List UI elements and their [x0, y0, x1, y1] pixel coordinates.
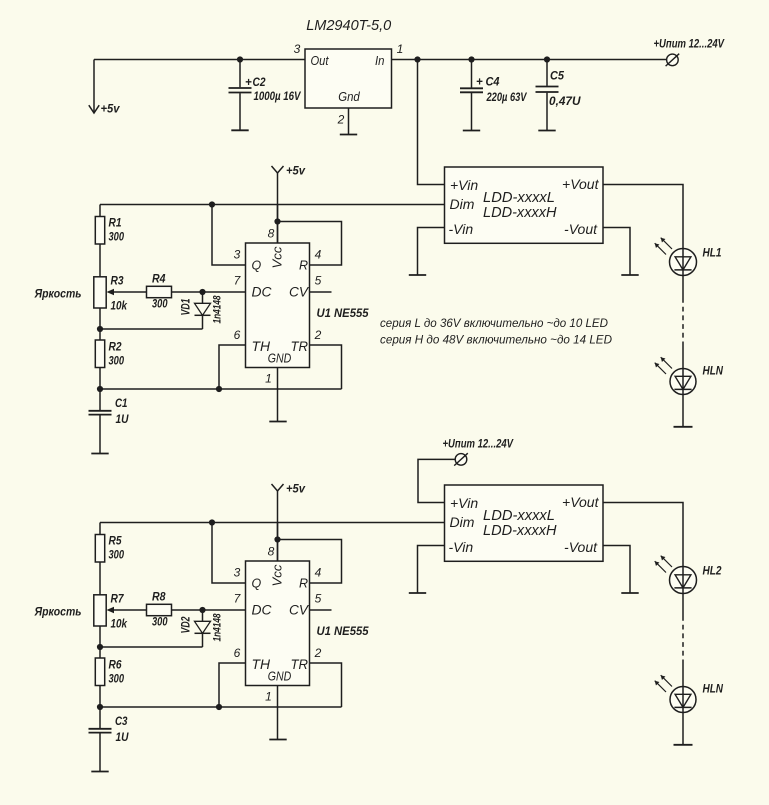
regulator Gnd pin 2 stub: [348, 108, 350, 135]
svg-text:U1 NE555: U1 NE555: [317, 306, 369, 320]
svg-text:+Uпит 12...24V: +Uпит 12...24V: [443, 439, 515, 451]
svg-text:300: 300: [109, 674, 125, 686]
node Vcc/R junction section 1: [274, 218, 280, 224]
svg-text:R: R: [299, 577, 308, 591]
svg-text:R3: R3: [111, 276, 125, 288]
wire dashed chain to HLN (HL1 group): [682, 345, 684, 369]
svg-text:TR: TR: [291, 339, 309, 354]
ground bar pin 1 section 1: [269, 421, 286, 423]
svg-text:Gnd: Gnd: [338, 89, 360, 104]
ground bar C2: [231, 129, 248, 131]
wire -Vout lead section 1: [603, 228, 630, 276]
svg-text:R7: R7: [111, 594, 125, 606]
wire pin 3 Q branch section 2: [212, 523, 246, 584]
wire R1 to R3: [99, 244, 101, 277]
capacitor C1 1U: [99, 389, 101, 410]
wire +5v rail to Out pin: [94, 59, 305, 61]
svg-text:2: 2: [337, 113, 345, 127]
svg-text:8: 8: [268, 545, 275, 559]
svg-text:In: In: [375, 53, 385, 68]
svg-text:C2: C2: [253, 77, 267, 89]
svg-text:серия L до 36V включительно ~д: серия L до 36V включительно ~до 10 LED: [380, 316, 608, 330]
diode VD1 1n4148: [202, 292, 204, 303]
svg-text:Яркость: Яркость: [34, 605, 82, 619]
timer U1 NE555 box section 2: [246, 561, 310, 686]
svg-text:HLN: HLN: [703, 684, 724, 696]
terminal +Uпит bottom: [455, 454, 467, 466]
svg-text:R8: R8: [152, 592, 166, 604]
svg-text:VD1: VD1: [181, 299, 193, 316]
ground bar under C3: [91, 771, 108, 773]
regulator U2 LM2940 box: [305, 49, 392, 108]
wire pin 6 TH section 1: [219, 345, 246, 389]
svg-text:Dim: Dim: [450, 514, 475, 530]
ground bar C4: [463, 130, 480, 132]
LED HLN (HL2 group): [670, 687, 696, 713]
wire -Vin to ground section 1: [418, 228, 445, 276]
terminal +Uпит top: [667, 54, 679, 66]
ground bar -Vin section 2: [409, 592, 426, 594]
wire pin 8 to pin 4 R section 1: [278, 222, 342, 266]
svg-text:HLN: HLN: [703, 366, 724, 378]
svg-text:Q: Q: [252, 577, 262, 591]
svg-text:4: 4: [315, 566, 322, 580]
svg-text:1000µ 16V: 1000µ 16V: [254, 91, 302, 103]
resistor R8: [147, 604, 172, 615]
resistor R2: [95, 340, 104, 368]
svg-text:C1: C1: [115, 398, 128, 410]
LED HL1: [670, 249, 697, 276]
wire In pin to +U terminal: [392, 59, 667, 61]
wiper arrow of R7: [109, 609, 147, 611]
wire pin 3 Q branch section 1: [212, 205, 246, 266]
svg-text:220µ 63V: 220µ 63V: [486, 92, 528, 104]
svg-text:3: 3: [294, 42, 301, 56]
node TH junction on bottom rail section 1: [216, 386, 222, 392]
svg-text:1n4148: 1n4148: [212, 295, 224, 324]
svg-text:DC: DC: [252, 285, 272, 300]
svg-text:U1 NE555: U1 NE555: [317, 624, 369, 638]
wire R5 top lead: [99, 523, 101, 535]
capacitor C3 1U: [99, 707, 101, 728]
wiper arrow of R3: [109, 291, 147, 293]
wire +Vout to LED HL1: [603, 185, 683, 249]
LED HL2: [670, 567, 697, 594]
svg-text:-Vin: -Vin: [449, 221, 474, 237]
svg-text:CV: CV: [289, 285, 310, 300]
wire Dim rail section 1: [100, 204, 445, 206]
node ground-rail left junction section 2: [97, 704, 103, 710]
svg-text:серия H до 48V включительно ~д: серия H до 48V включительно ~до 14 LED: [380, 333, 612, 347]
wire In junction to +Vin LDD1: [418, 60, 445, 185]
resistor R5: [95, 535, 104, 563]
wire diode VD2 to pot bottom: [100, 646, 203, 648]
wire pin 1 GND stub section 1: [277, 368, 279, 422]
svg-text:Out: Out: [311, 53, 330, 68]
svg-text:6: 6: [234, 646, 241, 660]
svg-text:3: 3: [234, 248, 241, 262]
svg-text:10k: 10k: [111, 619, 128, 631]
wire -Vin to ground section 2: [418, 546, 445, 594]
node ground-rail left junction section 1: [97, 386, 103, 392]
wire dashed LED chain continuation below HL2: [682, 616, 684, 663]
svg-text:-Vout: -Vout: [564, 221, 598, 237]
wire -Vout lead section 2: [603, 546, 630, 594]
terminal bar LED chain bottom (HL2 group): [674, 744, 693, 746]
terminal bar LED chain bottom (HL1 group): [674, 426, 693, 428]
resistor R6: [95, 658, 104, 686]
svg-text:1: 1: [397, 42, 404, 56]
svg-text:300: 300: [152, 299, 168, 311]
wire pot to R2: [99, 308, 101, 340]
svg-text:8: 8: [268, 227, 275, 241]
LED HLN (HL1 group): [670, 369, 696, 395]
wire R6 bottom lead: [99, 686, 101, 708]
node junction Q-branch section 1: [209, 201, 215, 207]
wire pin 1 GND stub section 2: [277, 686, 279, 740]
svg-text:4: 4: [315, 248, 322, 262]
svg-text:300: 300: [109, 550, 125, 562]
wire pin 5 CV stub section 2: [310, 609, 332, 611]
svg-text:300: 300: [152, 617, 168, 629]
svg-text:1U: 1U: [116, 732, 130, 744]
svg-text:R: R: [299, 259, 308, 273]
LED driver module LDD box section 1: [445, 167, 604, 243]
svg-text:LDD-xxxxH: LDD-xxxxH: [483, 204, 557, 221]
capacitor C2 1000µ 16V: [239, 60, 241, 88]
power +5v arrow section 1: [272, 166, 284, 173]
svg-text:TR: TR: [291, 657, 309, 672]
node C2 junction: [237, 56, 243, 62]
node junction Q-branch section 2: [209, 519, 215, 525]
wire dashed LED chain continuation below HL1: [682, 298, 684, 345]
power +5v arrow top left: [93, 60, 95, 114]
node In-pin junction: [414, 56, 420, 62]
svg-text:300: 300: [109, 356, 125, 368]
wire dashed chain to HLN (HL2 group): [682, 663, 684, 687]
ground bar pin 1 section 2: [269, 739, 286, 741]
svg-text:DC: DC: [252, 603, 272, 618]
wire Vcc pin 8 drop section 2: [277, 523, 279, 562]
svg-text:+5v: +5v: [101, 104, 121, 116]
power +5v arrow section 2: [272, 484, 284, 491]
svg-text:6: 6: [234, 328, 241, 342]
diode VD2 1n4148: [202, 610, 204, 621]
potentiometer R3 10k: [94, 277, 106, 308]
wire Vcc pin 8 drop section 1: [277, 205, 279, 244]
svg-text:1: 1: [265, 372, 272, 386]
svg-text:300: 300: [109, 232, 125, 244]
wire pin 2 TR section 1: [310, 345, 342, 389]
wire R2 bottom lead: [99, 368, 101, 390]
svg-text:Q: Q: [252, 259, 262, 273]
svg-text:+: +: [476, 77, 483, 89]
svg-text:2: 2: [314, 328, 322, 342]
svg-text:R2: R2: [109, 342, 123, 354]
timer U1 NE555 box section 1: [246, 243, 310, 368]
svg-text:R5: R5: [109, 536, 123, 548]
wire HLN bottom lead (HL2 group): [682, 713, 684, 745]
ground bar -Vin section 1: [409, 274, 426, 276]
svg-text:1n4148: 1n4148: [212, 613, 224, 642]
svg-text:-Vout: -Vout: [564, 539, 598, 555]
svg-text:GND: GND: [268, 669, 292, 684]
wire pin 2 TR section 2: [310, 663, 342, 707]
svg-text:+Vin: +Vin: [450, 495, 478, 511]
ground bar -Vout section 1: [621, 274, 638, 276]
wire Dim rail section 2: [100, 522, 445, 524]
svg-text:+Vin: +Vin: [450, 177, 478, 193]
wire HLN bottom lead (HL1 group): [682, 395, 684, 427]
wire pin 6 TH section 2: [219, 663, 246, 707]
svg-text:+Vout: +Vout: [562, 176, 600, 192]
svg-text:Dim: Dim: [450, 196, 475, 212]
svg-text:-Vin: -Vin: [449, 539, 474, 555]
svg-text:5: 5: [315, 274, 322, 288]
svg-text:HL2: HL2: [703, 566, 723, 578]
ground bar under C1: [91, 453, 108, 455]
svg-text:1U: 1U: [116, 414, 130, 426]
wire pin 5 CV stub section 1: [310, 291, 332, 293]
wire R8 to pin 7 DC: [172, 609, 246, 611]
wire R1 top lead: [99, 205, 101, 217]
ground bar -Vout section 2: [621, 592, 638, 594]
wire bottom rail section 2: [100, 706, 342, 708]
node pot bottom junction section 1: [97, 326, 103, 332]
wire HL2 to dashed chain: [682, 594, 684, 617]
svg-text:R4: R4: [152, 274, 166, 286]
wire R4 to pin 7 DC: [172, 291, 246, 293]
svg-text:+5v: +5v: [286, 484, 306, 496]
svg-text:C3: C3: [115, 716, 128, 728]
wire pin 8 to pin 4 R section 2: [278, 540, 342, 584]
svg-text:VD2: VD2: [181, 616, 193, 633]
wire diode VD1 to pot bottom: [100, 328, 203, 330]
svg-text:Vcc: Vcc: [270, 246, 285, 269]
node Vcc/R junction section 2: [274, 536, 280, 542]
potentiometer R7 10k: [94, 595, 106, 626]
wire +Vout to LED HL2: [603, 503, 683, 567]
svg-text:Яркость: Яркость: [34, 287, 82, 301]
svg-text:CV: CV: [289, 603, 310, 618]
capacitor C5 0,47U: [546, 60, 548, 86]
node C4 junction: [468, 56, 474, 62]
wire terminal to +Vin LDD2: [418, 459, 455, 502]
wire HL1 to dashed chain: [682, 276, 684, 299]
svg-text:2: 2: [314, 646, 322, 660]
node junction diode VD1 top: [199, 289, 205, 295]
node junction diode VD2 top: [199, 607, 205, 613]
svg-text:LDD-xxxxH: LDD-xxxxH: [483, 522, 557, 539]
svg-text:+Uпит 12...24V: +Uпит 12...24V: [654, 39, 726, 51]
svg-text:+5v: +5v: [286, 166, 306, 178]
capacitor C4 220µ 63V: [471, 60, 473, 88]
svg-text:+Vout: +Vout: [562, 494, 600, 510]
svg-text:C4: C4: [486, 77, 501, 89]
svg-text:10k: 10k: [111, 301, 128, 313]
svg-text:HL1: HL1: [703, 248, 722, 260]
svg-text:C5: C5: [550, 71, 565, 83]
svg-text:LM2940T-5,0: LM2940T-5,0: [306, 17, 392, 34]
ground bar regulator: [340, 134, 357, 136]
ground bar C5: [538, 130, 555, 132]
svg-text:Vcc: Vcc: [270, 564, 285, 587]
node pot bottom junction section 2: [97, 644, 103, 650]
wire R5 to R7: [99, 562, 101, 595]
wire pot to R6: [99, 626, 101, 658]
svg-text:R6: R6: [109, 660, 123, 672]
node TH junction on bottom rail section 2: [216, 704, 222, 710]
svg-text:1: 1: [265, 690, 272, 704]
wire bottom rail section 1: [100, 388, 342, 390]
resistor R1: [95, 217, 104, 245]
LED driver module LDD box section 2: [445, 485, 604, 561]
svg-text:3: 3: [234, 566, 241, 580]
svg-text:0,47U: 0,47U: [549, 96, 581, 108]
svg-text:5: 5: [315, 592, 322, 606]
resistor R4: [147, 286, 172, 297]
node C5 junction: [544, 56, 550, 62]
svg-text:R1: R1: [109, 218, 122, 230]
svg-text:+: +: [245, 77, 252, 89]
svg-text:GND: GND: [268, 351, 292, 366]
